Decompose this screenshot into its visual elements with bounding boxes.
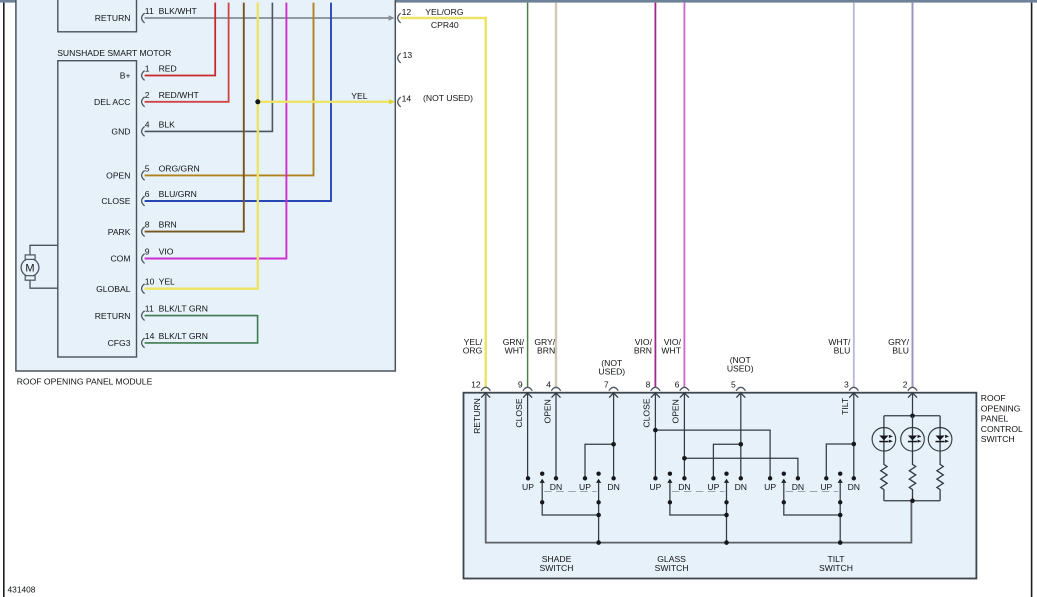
pin 1 B+ of sunshade smart motor bbox=[142, 71, 145, 81]
svg-text:GND: GND bbox=[111, 127, 130, 137]
svg-text:BLK: BLK bbox=[159, 119, 176, 129]
svg-text:1: 1 bbox=[145, 64, 150, 74]
led D3 bbox=[928, 428, 952, 452]
svg-text:12: 12 bbox=[471, 379, 481, 389]
wire return bus bbox=[486, 394, 912, 543]
svg-text:YEL/ORG: YEL/ORG bbox=[425, 7, 464, 17]
wire YEL pin 10 bbox=[145, 3, 258, 289]
wire switch pin 4 to DN contact bbox=[555, 394, 557, 477]
svg-text:8: 8 bbox=[145, 220, 150, 230]
sunshade smart motor box bbox=[58, 61, 137, 357]
wire YEL branch to connector pin 14 bbox=[258, 101, 391, 103]
svg-text:OPEN: OPEN bbox=[671, 399, 681, 423]
led D2 bbox=[901, 428, 925, 452]
junction dot pin 7 bbox=[611, 442, 616, 447]
svg-text:DN: DN bbox=[735, 482, 747, 492]
svg-text:SWITCH: SWITCH bbox=[819, 563, 853, 573]
svg-text:DEL ACC: DEL ACC bbox=[94, 97, 130, 107]
svg-text:B+: B+ bbox=[120, 71, 131, 81]
svg-text:5: 5 bbox=[731, 379, 736, 389]
svg-text:ROOF OPENING PANEL MODULE: ROOF OPENING PANEL MODULE bbox=[17, 377, 153, 387]
svg-text:9: 9 bbox=[518, 379, 523, 389]
svg-text:BRN: BRN bbox=[159, 220, 177, 230]
svg-text:TILT: TILT bbox=[840, 397, 850, 415]
svg-text:UP: UP bbox=[522, 482, 534, 492]
resistor R2 bbox=[909, 451, 915, 501]
svg-text:OPEN: OPEN bbox=[542, 399, 552, 423]
svg-text:BLK/LT GRN: BLK/LT GRN bbox=[159, 331, 208, 341]
svg-text:USED): USED) bbox=[598, 367, 625, 377]
svg-text:6: 6 bbox=[675, 379, 680, 389]
junction dot pin 8 bbox=[653, 428, 658, 433]
drawing frame left border bbox=[3, 3, 5, 597]
wire GRY/BLU to switch pin 2 bbox=[912, 3, 914, 388]
svg-text:SWITCH: SWITCH bbox=[981, 434, 1015, 444]
svg-text:BLU/GRN: BLU/GRN bbox=[159, 189, 197, 199]
svg-text:DN: DN bbox=[792, 482, 804, 492]
wire led 3 anode bbox=[939, 416, 941, 428]
wire GRN/WHT to switch pin 9 bbox=[527, 3, 529, 388]
motor M1 symbol bbox=[21, 245, 58, 288]
svg-text:11: 11 bbox=[145, 304, 154, 314]
wire VIO/BRN to switch pin 8 bbox=[654, 3, 656, 388]
led bottom bus bbox=[884, 500, 940, 502]
wire BLK/WHT pin 11 to connector pin 12 bbox=[145, 17, 393, 19]
svg-text:COM: COM bbox=[110, 254, 130, 264]
wire led 2 anode bbox=[912, 416, 914, 428]
pin 2 DEL ACC of sunshade smart motor bbox=[142, 97, 145, 107]
resistor R3 bbox=[937, 451, 943, 501]
junction dot YEL bbox=[255, 99, 260, 104]
svg-text:BRN: BRN bbox=[634, 346, 652, 356]
switch pin 4 bbox=[551, 387, 560, 390]
switch box ROOF OPENING PANEL CONTROL SWITCH bbox=[464, 393, 977, 579]
wire VIO/WHT to switch pin 6 bbox=[683, 3, 685, 388]
svg-text:RED: RED bbox=[159, 64, 177, 74]
pin 8 PARK of sunshade smart motor bbox=[142, 227, 145, 237]
svg-text:UP: UP bbox=[820, 482, 832, 492]
svg-text:(NOT USED): (NOT USED) bbox=[423, 93, 473, 103]
wire RED pin 1 bbox=[145, 3, 216, 76]
svg-text:CONTROL: CONTROL bbox=[981, 424, 1023, 434]
resistor R1 bbox=[881, 451, 887, 501]
svg-text:GLOBAL: GLOBAL bbox=[96, 284, 131, 294]
svg-text:2: 2 bbox=[903, 379, 908, 389]
wire switch pin 9 to UP contact bbox=[527, 394, 529, 477]
connector pin 13 bbox=[398, 53, 401, 63]
svg-text:WHT: WHT bbox=[505, 346, 525, 356]
connector pin 14 bbox=[398, 97, 401, 107]
svg-text:OPEN: OPEN bbox=[106, 171, 130, 181]
junction dot pin 3 bbox=[852, 442, 857, 447]
svg-text:SWITCH: SWITCH bbox=[655, 563, 689, 573]
svg-text:PANEL: PANEL bbox=[981, 414, 1009, 424]
switch pole pair shade switch bbox=[540, 472, 544, 476]
svg-text:DN: DN bbox=[678, 482, 690, 492]
svg-text:DN: DN bbox=[848, 482, 860, 492]
switch pin 3 bbox=[849, 387, 858, 390]
svg-text:11: 11 bbox=[145, 6, 154, 16]
pin 5 OPEN of sunshade smart motor bbox=[142, 171, 145, 181]
svg-text:YEL: YEL bbox=[159, 277, 175, 287]
svg-text:ORG/GRN: ORG/GRN bbox=[159, 163, 200, 173]
svg-text:6: 6 bbox=[145, 189, 150, 199]
svg-text:CLOSE: CLOSE bbox=[101, 196, 130, 206]
svg-text:UP: UP bbox=[579, 482, 591, 492]
wire switch pin 8 branch bbox=[655, 394, 770, 477]
svg-text:CFG3: CFG3 bbox=[108, 338, 131, 348]
pin 14 CFG3 of sunshade smart motor bbox=[142, 338, 145, 348]
svg-text:RED/WHT: RED/WHT bbox=[159, 90, 200, 100]
svg-text:DN: DN bbox=[607, 482, 619, 492]
svg-text:13: 13 bbox=[403, 50, 413, 60]
svg-text:BLU: BLU bbox=[892, 346, 909, 356]
switch pin 5 bbox=[736, 387, 745, 390]
svg-text:9: 9 bbox=[145, 247, 150, 257]
svg-text:BLK/WHT: BLK/WHT bbox=[159, 6, 198, 16]
svg-text:UP: UP bbox=[649, 482, 661, 492]
wire BLU/GRN pin 6 bbox=[145, 3, 331, 201]
led D1 bbox=[872, 428, 896, 452]
svg-text:4: 4 bbox=[145, 119, 150, 129]
svg-text:WHT: WHT bbox=[661, 346, 681, 356]
svg-text:CPR40: CPR40 bbox=[431, 20, 459, 30]
svg-text:BRN: BRN bbox=[537, 346, 555, 356]
wire WHT/BLU to switch pin 3 bbox=[853, 3, 855, 388]
wire switch pin 5 branch bbox=[713, 394, 740, 477]
svg-text:YEL: YEL bbox=[351, 91, 367, 101]
junction dot pin 5 bbox=[739, 442, 744, 447]
svg-text:7: 7 bbox=[604, 379, 609, 389]
wire led 1 anode bbox=[883, 416, 885, 428]
switch pole pair glass switch bbox=[668, 472, 672, 476]
svg-text:5: 5 bbox=[145, 163, 150, 173]
svg-text:RETURN: RETURN bbox=[472, 398, 482, 434]
wire switch pin 6 branch bbox=[684, 394, 798, 477]
drawing frame top bar bbox=[0, 0, 1037, 3]
wire switch pin 7 branch bbox=[585, 394, 614, 477]
wire GRY/BRN to switch pin 4 bbox=[555, 3, 557, 388]
svg-text:RETURN: RETURN bbox=[95, 311, 131, 321]
wire BLK pin 4 bbox=[145, 3, 273, 132]
wire switch pin 3 branch bbox=[826, 394, 854, 477]
svg-text:ROOF: ROOF bbox=[981, 393, 1006, 403]
svg-text:SWITCH: SWITCH bbox=[540, 563, 574, 573]
module box ROOF OPENING PANEL MODULE bbox=[16, 0, 395, 371]
svg-text:14: 14 bbox=[402, 93, 412, 103]
wire YEL/ORG connector pin 12 to switch pin 12 bbox=[401, 18, 486, 387]
svg-text:10: 10 bbox=[145, 277, 155, 287]
svg-text:14: 14 bbox=[145, 331, 155, 341]
switch fixed contact dots bbox=[526, 476, 530, 480]
switch pole pair tilt switch bbox=[782, 472, 786, 476]
switch pin 7 bbox=[609, 387, 618, 390]
svg-text:M: M bbox=[25, 262, 34, 274]
junction dot led top bus bbox=[910, 414, 915, 419]
junction dot pin 6 bbox=[682, 456, 687, 461]
wire VIO pin 9 bbox=[145, 3, 287, 259]
svg-text:4: 4 bbox=[546, 379, 551, 389]
svg-text:RETURN: RETURN bbox=[95, 13, 131, 23]
pin 11 RETURN of sunshade smart motor bbox=[142, 13, 145, 23]
connector pin 12 CPR40 bbox=[398, 13, 401, 23]
switch pin 9 bbox=[523, 387, 532, 390]
pin 6 CLOSE of sunshade smart motor bbox=[142, 196, 145, 206]
svg-text:PARK: PARK bbox=[108, 227, 131, 237]
switch pin 2 bbox=[908, 387, 917, 390]
svg-text:BLK/LT GRN: BLK/LT GRN bbox=[159, 304, 208, 314]
svg-text:DN: DN bbox=[550, 482, 562, 492]
svg-text:CLOSE: CLOSE bbox=[514, 398, 524, 427]
svg-text:3: 3 bbox=[844, 379, 849, 389]
wire switch pin 2 to led bus bbox=[912, 394, 914, 416]
svg-text:2: 2 bbox=[145, 90, 150, 100]
svg-text:12: 12 bbox=[402, 7, 412, 17]
wire BLK/LT GRN loop pin 11 to pin 14 bbox=[145, 316, 258, 343]
pin 9 COM of sunshade smart motor bbox=[142, 254, 145, 264]
pin 10 GLOBAL of sunshade smart motor bbox=[142, 284, 145, 294]
pin 11 RETURN of sunshade smart motor bbox=[142, 311, 145, 321]
svg-text:UP: UP bbox=[707, 482, 719, 492]
junction dot led bottom bus bbox=[910, 499, 915, 504]
pin 4 GND of sunshade smart motor bbox=[142, 127, 145, 137]
svg-text:OPENING: OPENING bbox=[981, 403, 1021, 413]
svg-text:ORG: ORG bbox=[463, 346, 483, 356]
connector box (top return connector) bbox=[58, 0, 137, 32]
svg-text:UP: UP bbox=[764, 482, 776, 492]
drawing frame right border bbox=[1031, 3, 1033, 597]
wire RED/WHT pin 2 bbox=[145, 3, 229, 102]
svg-text:8: 8 bbox=[646, 379, 651, 389]
switch pin 12 bbox=[481, 387, 490, 390]
svg-text:BLU: BLU bbox=[834, 346, 851, 356]
svg-text:CLOSE: CLOSE bbox=[642, 398, 652, 427]
wire BRN pin 8 bbox=[145, 3, 244, 232]
svg-text:431408: 431408 bbox=[8, 585, 36, 595]
svg-text:SUNSHADE SMART MOTOR: SUNSHADE SMART MOTOR bbox=[57, 48, 171, 58]
svg-text:VIO: VIO bbox=[159, 247, 174, 257]
led top bus bbox=[884, 415, 940, 417]
switch pin 6 bbox=[680, 387, 689, 390]
wire ORG/GRN pin 5 bbox=[145, 3, 314, 176]
switch pin 8 bbox=[651, 387, 660, 390]
svg-text:USED): USED) bbox=[727, 363, 754, 373]
